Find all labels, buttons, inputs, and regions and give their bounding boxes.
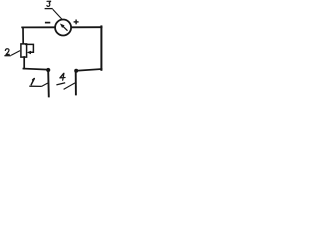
label 4 underline	[56, 83, 65, 85]
label 3 digit glyph	[47, 1, 51, 6]
galvanometer G circle 3	[55, 20, 71, 36]
rheostat slider wire	[25, 44, 34, 52]
label 2 digit glyph	[5, 49, 9, 55]
galvanometer needle arrowhead	[60, 24, 65, 28]
label 1 leader	[42, 83, 48, 86]
wire top-right horizontal	[71, 26, 101, 28]
resistor R (rheostat body) 2	[21, 44, 27, 57]
wire right vertical	[100, 26, 102, 69]
label 4 leader	[64, 83, 75, 90]
galvanometer needle	[62, 26, 67, 31]
wire top-left horizontal	[22, 26, 55, 28]
rheostat slider arrowhead	[27, 51, 31, 54]
label 1 underline	[29, 85, 41, 87]
label 2 underline	[4, 55, 10, 57]
electrode stub 1	[47, 71, 50, 98]
label 1 digit glyph	[31, 79, 34, 85]
node terminal dot 1	[46, 68, 50, 72]
node terminal dot 4	[74, 69, 78, 73]
minus polarity sign	[45, 22, 50, 24]
wire left vertical	[22, 27, 24, 43]
label 3 leader	[53, 9, 63, 20]
electrode stub 4	[75, 71, 77, 95]
wire left vertical below resistor	[23, 57, 25, 69]
label 4 digit glyph	[60, 73, 65, 80]
label 2 leader	[11, 51, 20, 56]
wire lower-right horizontal	[77, 69, 102, 71]
wire lower-left horizontal	[23, 69, 47, 70]
plus polarity sign	[74, 21, 79, 23]
label 3 underline	[45, 8, 53, 10]
